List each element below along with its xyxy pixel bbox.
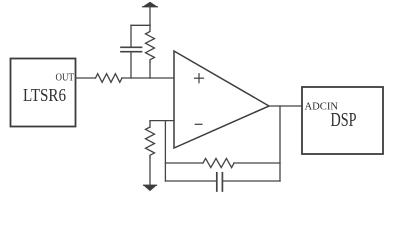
wire feedback left vertical: [164, 121, 166, 181]
op-amp minus label: [195, 123, 202, 125]
resistor R3 (to ground): [146, 127, 155, 157]
capacitor C1 top lead wire: [130, 25, 132, 47]
resistor R4 (feedback): [203, 158, 234, 167]
capacitor C1 bottom lead wire to node: [130, 52, 132, 78]
power symbol VCC arrow: [143, 2, 156, 6]
wire R3 to ground: [149, 157, 151, 185]
dsp block: [302, 87, 383, 154]
resistor R1 (series input): [96, 74, 123, 83]
wire feedback right vertical (from output): [279, 106, 281, 181]
wire op-amp output to DSP: [269, 105, 302, 107]
capacitor C2 (feedback) plates: [216, 173, 218, 191]
op-amp U1 triangle: [174, 51, 269, 148]
resistor R2 (vertical, to VCC rail): [146, 25, 155, 62]
svg-text:DSP: DSP: [331, 110, 357, 131]
svg-text:LTSR6: LTSR6: [23, 85, 66, 105]
wire LTSR6 OUT to R1: [76, 77, 96, 79]
svg-text:OUT: OUT: [56, 72, 75, 84]
op-amp plus label: [195, 74, 204, 83]
wire VCC down to rail: [149, 7, 151, 26]
capacitor C1 plates: [121, 46, 142, 48]
wire R2 bottom to node on + input: [149, 62, 151, 78]
wire top rail: [131, 24, 150, 26]
wire feedback resistor branch right: [234, 162, 280, 164]
ground symbol (arrow down): [144, 184, 157, 186]
wire minus node down to R3: [149, 121, 151, 127]
wire feedback resistor branch left: [165, 162, 203, 164]
wire feedback capacitor branch right: [222, 180, 280, 182]
wire R1 to op-amp + input: [122, 77, 174, 79]
wire op-amp minus input: [150, 120, 174, 122]
sensor block LTSR6: [11, 59, 76, 127]
wire feedback capacitor branch left: [165, 180, 216, 182]
